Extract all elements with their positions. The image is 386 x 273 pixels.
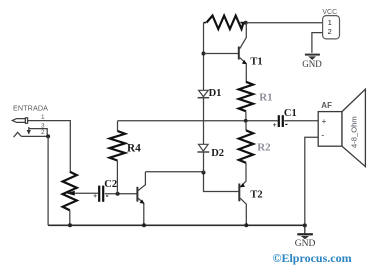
node output junction (244, 119, 248, 123)
connector VCC (323, 16, 340, 39)
svg-text:R1: R1 (259, 91, 272, 103)
transistor T2 (239, 181, 246, 225)
svg-text:C2: C2 (104, 179, 117, 190)
svg-text:T2: T2 (250, 190, 262, 201)
svg-text:R4: R4 (127, 142, 141, 154)
wire node to T2 base (204, 173, 239, 192)
node speaker ground junction (303, 223, 307, 227)
node D2 bottom junction (202, 171, 206, 175)
capacitor C1 (273, 115, 288, 129)
node pot bottom (68, 223, 72, 227)
node Q1 emitter rail (142, 223, 146, 227)
wire speaker minus to ground rail (305, 137, 318, 225)
node T1 base junction (202, 52, 206, 56)
wire jack pin2 (21, 135, 48, 137)
ground bottom (295, 225, 316, 249)
svg-text:4-8_Ohm: 4-8_Ohm (350, 116, 359, 148)
svg-text:-: - (321, 130, 324, 140)
svg-text:+: + (273, 122, 277, 129)
node top resistor right junction (244, 21, 248, 25)
resistor R4 (110, 121, 125, 194)
svg-text:ENTRADA: ENTRADA (13, 104, 48, 113)
wire top node to VCC pin1 (246, 22, 323, 24)
transistor T1 (239, 23, 247, 82)
wire bootstrap R4 top to output node (118, 120, 278, 122)
resistor R3 top (204, 16, 246, 29)
svg-text:2: 2 (41, 129, 45, 136)
wire jack pin1 to potentiometer top (28, 121, 71, 172)
node T2 collector rail (244, 223, 248, 227)
wire VCC pin2 to ground (312, 33, 323, 53)
wire C2 to Q1 base (105, 193, 137, 195)
transistor Q1 (137, 172, 145, 226)
speaker LS1 (318, 89, 365, 166)
diode D2 (198, 144, 210, 152)
svg-text:+: + (93, 193, 97, 200)
svg-text:©Elprocus.com: ©Elprocus.com (273, 251, 352, 265)
wire left vertical to ground rail (47, 136, 49, 225)
node R4 bottom junction (116, 192, 120, 196)
svg-text:-: - (106, 191, 109, 201)
potentiometer RV1 (63, 172, 99, 226)
wire C1 to speaker plus (284, 120, 318, 122)
svg-text:T1: T1 (250, 57, 262, 68)
resistor R2 (239, 121, 253, 181)
wire bottom ground rail (48, 224, 305, 226)
svg-text:D1: D1 (209, 88, 222, 99)
svg-text:+: + (322, 117, 327, 126)
wire top left vertical (203, 23, 205, 91)
wire T1 base (204, 53, 239, 55)
capacitor C2 (93, 186, 108, 202)
svg-text:GND: GND (302, 59, 322, 69)
svg-text:D2: D2 (211, 148, 224, 159)
svg-text:1: 1 (328, 18, 332, 27)
svg-text:AF: AF (321, 101, 332, 110)
diode D1 (198, 90, 210, 97)
wire D1 to D2 (203, 98, 205, 145)
svg-text:R2: R2 (257, 142, 271, 154)
svg-text:2: 2 (328, 27, 332, 36)
node jack pin2 junction (46, 134, 50, 138)
wire D2 to node (203, 152, 205, 173)
wire Q1 collector to D2 bottom node (145, 171, 203, 173)
resistor R1 (239, 82, 253, 121)
svg-text:C1: C1 (284, 108, 297, 119)
connector J1 audio jack (12, 118, 47, 137)
ground top (302, 55, 322, 70)
svg-text:VCC: VCC (322, 9, 337, 16)
svg-text:GND: GND (295, 239, 316, 249)
